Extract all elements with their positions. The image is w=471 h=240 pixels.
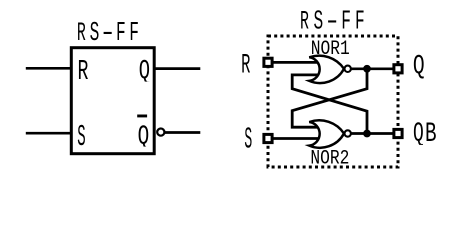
svg-text:NOR1: NOR1: [311, 38, 350, 61]
tail trim rects: [138, 82, 150, 86]
inversion bubble on Q-bar: [157, 129, 164, 136]
terminal QB: [394, 129, 402, 137]
svg-text:F: F: [341, 5, 351, 37]
svg-text:R: R: [300, 6, 309, 37]
dotted enclosure box: [268, 36, 398, 167]
junction node Q: [363, 65, 371, 73]
wire R input (left block): [26, 67, 71, 70]
svg-text:-: -: [323, 6, 341, 37]
wire Q-bar output (left block): [165, 131, 201, 134]
svg-text:S: S: [244, 124, 252, 158]
terminal R: [264, 58, 272, 66]
title RS-FF (right detail): [300, 5, 365, 37]
svg-text:F: F: [129, 17, 139, 49]
wire S input to NOR2: [274, 137, 323, 140]
flip-flop block U1: [71, 48, 154, 154]
svg-text:R: R: [78, 56, 89, 88]
wire NOR1 output to Q terminal: [351, 67, 394, 70]
junction node QB: [363, 130, 371, 138]
svg-text:R: R: [241, 49, 250, 81]
terminal S: [264, 134, 272, 142]
title RS-FF (left block): [77, 17, 139, 49]
svg-text:B: B: [425, 119, 437, 150]
svg-text:R: R: [77, 18, 86, 49]
NOR gate U2 (NOR1) body: [309, 56, 344, 83]
terminal Q: [394, 65, 402, 73]
wire feedback QB to NOR1 input: [292, 75, 367, 134]
wire R input to NOR1: [274, 61, 323, 64]
svg-text:NOR2: NOR2: [310, 147, 349, 170]
svg-text:F: F: [116, 17, 126, 49]
NOR1 output bubble: [345, 66, 351, 72]
net label QB: [413, 118, 437, 150]
svg-text:S: S: [313, 5, 323, 37]
NOR2 output bubble: [345, 130, 351, 136]
svg-text:Q: Q: [413, 51, 425, 82]
svg-text:-: -: [99, 17, 117, 48]
wire feedback Q to NOR2 input: [292, 69, 367, 127]
svg-text:Q: Q: [413, 118, 424, 149]
NOR gate U3 (NOR2) body: [309, 120, 344, 147]
svg-text:S: S: [77, 120, 85, 155]
svg-text:F: F: [355, 5, 365, 37]
wire NOR2 output to QB terminal: [351, 132, 394, 135]
wire Q output (left block): [154, 67, 200, 70]
wire S input (left block): [26, 132, 71, 135]
